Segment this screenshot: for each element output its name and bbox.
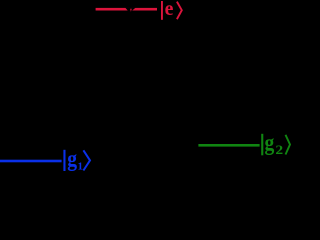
label |g1> bar [63,150,65,171]
label |g2> rangle [286,135,291,155]
svg-text:1: 1 [78,161,84,172]
black arrowhead (invisible arrow) notching red level [125,8,135,11]
svg-text:g: g [67,146,77,171]
svg-text:g: g [265,130,275,155]
level line |g2> (green) [198,144,259,147]
label |e> rangle [177,2,182,20]
red arrowhead tip below level [130,9,132,12]
label |g1> rangle [83,150,90,170]
level line |e> (red) [96,8,157,11]
svg-text:2: 2 [275,142,283,157]
label |g2> bar [261,134,263,156]
level line |g1> (blue) [0,160,62,163]
label |e> bar [161,1,163,20]
svg-text:e: e [165,0,174,20]
